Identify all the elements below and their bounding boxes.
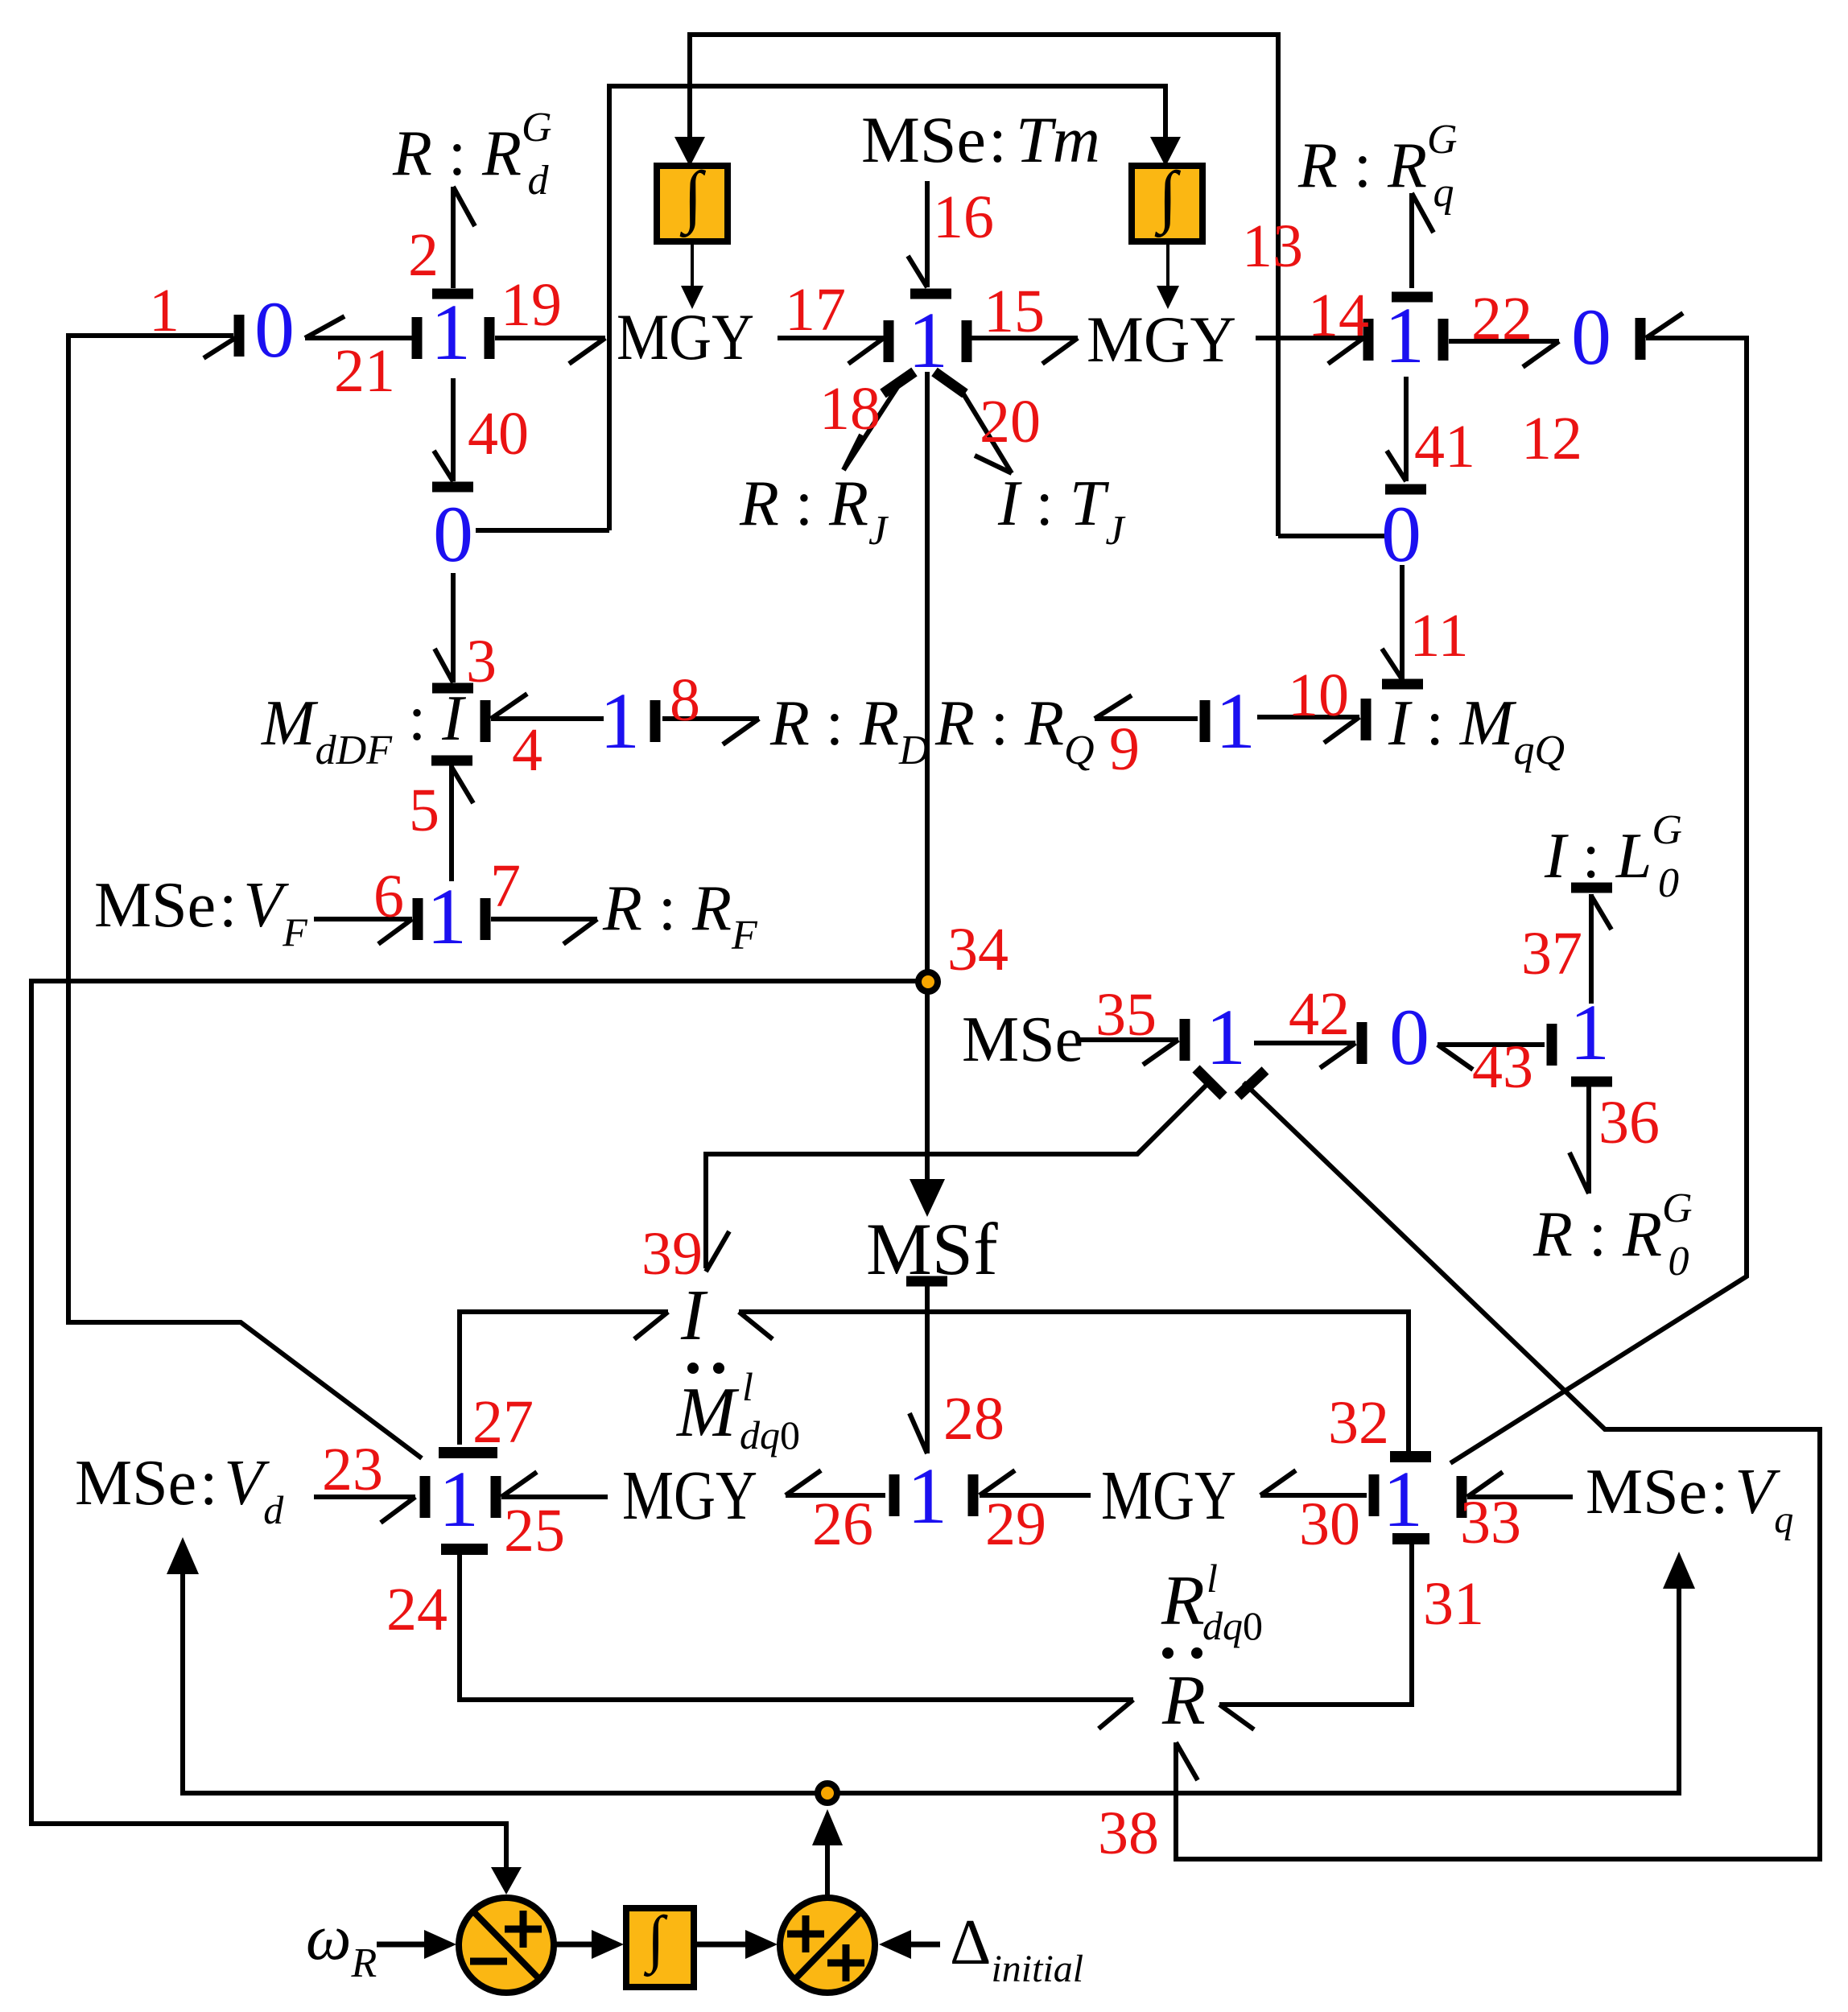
- svg-text:20: 20: [980, 388, 1041, 456]
- svg-text:MGY: MGY: [1101, 1456, 1236, 1534]
- svg-text:43: 43: [1472, 1033, 1533, 1101]
- bond 19 (1d to MGY): [489, 317, 605, 364]
- svg-text:10: 10: [1288, 662, 1349, 729]
- svg-text:35: 35: [1095, 981, 1157, 1049]
- svg-text:1: 1: [431, 287, 471, 377]
- integrator box left: [657, 166, 728, 241]
- bond 18 (rotor 1 to R:RJ): [844, 372, 914, 470]
- bond 10 (1 to I:MqQ): [1257, 699, 1366, 743]
- svg-text:31: 31: [1423, 1570, 1484, 1638]
- summator 2: [780, 1898, 875, 1993]
- arrow omega to sum1: [377, 1942, 430, 1948]
- svg-text:5: 5: [409, 777, 439, 844]
- svg-text:MSe:Tm: MSe:Tm: [861, 103, 1100, 176]
- svg-text:42: 42: [1289, 980, 1350, 1048]
- svg-text:33: 33: [1460, 1489, 1521, 1556]
- bond 9 (1 to R:RQ): [1095, 695, 1205, 742]
- wire rotor shaft down to MSf: [925, 372, 930, 1181]
- svg-text:R: R: [1161, 1662, 1206, 1740]
- svg-text:34: 34: [947, 916, 1009, 983]
- svg-text:17: 17: [785, 276, 846, 344]
- node delta: [818, 1783, 837, 1803]
- svg-text:1: 1: [1383, 1454, 1423, 1544]
- svg-text:19: 19: [501, 271, 562, 339]
- svg-text:28: 28: [943, 1385, 1004, 1453]
- svg-text:I: I: [680, 1276, 708, 1355]
- node 34: [918, 972, 938, 992]
- bond 4 (1 to MdDF:I): [485, 694, 604, 742]
- svg-text:1: 1: [1215, 676, 1256, 765]
- bond 29 (MGY to 1): [973, 1470, 1091, 1516]
- svg-text:38: 38: [1098, 1800, 1159, 1867]
- bond 28 (MSf to 1 bottom): [906, 1281, 947, 1453]
- bond 7 (1F to R:RF): [485, 898, 597, 944]
- svg-text:1: 1: [427, 872, 467, 961]
- svg-text:MGY: MGY: [617, 300, 754, 373]
- svg-text:6: 6: [373, 863, 404, 930]
- svg-text:MGY: MGY: [622, 1456, 757, 1534]
- svg-text:4: 4: [512, 716, 542, 784]
- svg-text:0: 0: [1381, 489, 1421, 579]
- integrator box bottom: [626, 1908, 694, 1987]
- svg-text:0: 0: [254, 285, 295, 374]
- svg-text:13: 13: [1242, 212, 1303, 280]
- svg-text:29: 29: [985, 1490, 1046, 1558]
- bond 36 (1 down to R:R0): [1570, 1082, 1612, 1194]
- svg-text:36: 36: [1598, 1089, 1660, 1156]
- signal line top2 from d-axis 0 to right integrator: [609, 86, 1165, 530]
- bond 25 (MGY to 1-Vd): [496, 1472, 608, 1518]
- bond 26 (1 to MGY): [786, 1470, 894, 1516]
- bond 6 (MSe:VF to 1F): [314, 898, 418, 944]
- svg-text:1: 1: [149, 277, 179, 344]
- bond 37 (1 up to I:L0): [1571, 888, 1612, 1004]
- svg-text:26: 26: [812, 1490, 873, 1558]
- svg-text:12: 12: [1521, 405, 1582, 472]
- bond 13 (1q to R:Rq): [1392, 193, 1433, 297]
- arrowhead into left integrator: [674, 137, 705, 167]
- svg-text:15: 15: [984, 278, 1045, 345]
- bond 2 (1d to R:Rd): [432, 187, 475, 294]
- bond 22 (1q to 0q): [1443, 319, 1559, 367]
- svg-text:40: 40: [468, 400, 529, 468]
- bond 38 (1-MSe row to R field): [1176, 1070, 1820, 1859]
- bond 33 (MSe:Vq to 1): [1462, 1472, 1573, 1518]
- integrator box right: [1132, 166, 1202, 241]
- wire 0 to top2 line: [476, 528, 609, 533]
- svg-text:21: 21: [334, 337, 395, 405]
- svg-text:22: 22: [1471, 285, 1532, 353]
- svg-text:37: 37: [1521, 920, 1582, 987]
- arrowhead into right integrator: [1150, 137, 1181, 167]
- bond 5 (1F up to MdDF:I): [431, 761, 473, 881]
- signal line top1 from q-axis 0 to left integrator: [690, 35, 1278, 536]
- bond 39 (1-MSe row to I field): [706, 1069, 1223, 1272]
- svg-text:1: 1: [1206, 992, 1246, 1082]
- svg-text:18: 18: [819, 375, 881, 443]
- svg-text:1: 1: [907, 1451, 947, 1540]
- bond 12 polyline (0q to 1-Vq junction): [1450, 313, 1747, 1463]
- svg-text:1: 1: [439, 1454, 479, 1544]
- bond 43 (1 to 0): [1438, 1024, 1552, 1070]
- svg-text:∫: ∫: [644, 1904, 668, 1977]
- bond 42 (1 to 0): [1254, 1022, 1362, 1068]
- svg-text:MGY: MGY: [1087, 303, 1236, 376]
- svg-text:1: 1: [1384, 291, 1425, 380]
- svg-text:16: 16: [933, 183, 994, 251]
- svg-text:7: 7: [490, 852, 521, 920]
- svg-text:9: 9: [1109, 715, 1140, 783]
- bond 41 (1q down to 0): [1385, 377, 1426, 489]
- bond 3 (0 down to MdDF:I): [432, 573, 473, 688]
- arrow sum2 to node: [825, 1841, 830, 1896]
- bond 27 (1-Vd up to I field): [439, 1312, 668, 1453]
- arrow delta-initial to sum2: [903, 1942, 940, 1948]
- bond 21 (1d to 0d): [305, 316, 417, 359]
- svg-text:0: 0: [1571, 292, 1611, 381]
- arrow integrator to sum2: [694, 1942, 749, 1948]
- bond 8 (1 to R:RD): [655, 700, 759, 744]
- bond 30 (1-Vq to MGY): [1260, 1470, 1374, 1516]
- svg-text:3: 3: [466, 628, 497, 695]
- signal arrow right integrator to MGY: [1166, 241, 1169, 291]
- svg-text:32: 32: [1328, 1389, 1389, 1457]
- summator 1: [459, 1898, 554, 1993]
- bond 11 (0q to I:MqQ): [1382, 565, 1423, 684]
- bond 17 (MGY to rotor 1): [778, 320, 889, 364]
- feedback line to MSe:Vd and MSe:Vq: [183, 1571, 1679, 1793]
- signal arrow left integrator to MGY: [691, 241, 694, 291]
- bond 23 (MSe:Vd to 1): [314, 1476, 425, 1523]
- svg-text:25: 25: [504, 1497, 565, 1565]
- bond 35 (MSe to 1): [1079, 1019, 1185, 1065]
- svg-text:2: 2: [408, 221, 439, 289]
- svg-text:0: 0: [1389, 992, 1429, 1082]
- rotated colon: [687, 1363, 699, 1374]
- wire node34 to summator1: [31, 981, 918, 1869]
- svg-text:8: 8: [670, 666, 700, 734]
- bond 1 polyline from 1-Vd junction to 0d: [68, 315, 422, 1458]
- svg-text:0: 0: [433, 489, 473, 579]
- svg-text:27: 27: [472, 1388, 534, 1456]
- rotated colon R field: [1162, 1647, 1174, 1659]
- bond 24 (1-Vd down to R field): [441, 1549, 1133, 1729]
- bond 40 (1d down to 0): [432, 378, 473, 487]
- svg-text:MSe: MSe: [962, 1004, 1083, 1075]
- svg-text:24: 24: [386, 1576, 448, 1643]
- svg-text:14: 14: [1308, 282, 1369, 349]
- wire 0q to top1 line: [1278, 534, 1386, 538]
- bond 15 (rotor 1 to MGY): [967, 320, 1078, 364]
- svg-text:30: 30: [1299, 1490, 1360, 1558]
- svg-text:23: 23: [322, 1436, 383, 1503]
- svg-text:11: 11: [1409, 602, 1468, 670]
- svg-text:41: 41: [1414, 413, 1475, 480]
- arrow sum1 to integrator: [555, 1942, 597, 1948]
- svg-text:1: 1: [1570, 987, 1610, 1077]
- bond 31 (1-Vq down to R field): [1219, 1539, 1429, 1730]
- bond 14 (MGY to 1q): [1256, 319, 1368, 364]
- bond 20 (rotor 1 to I:TJ): [934, 372, 1012, 473]
- bond 32 (1-Vq up to I field): [739, 1312, 1431, 1457]
- svg-text:1: 1: [600, 676, 640, 765]
- bond 16 (MSe:Tm to rotor 1): [908, 181, 951, 294]
